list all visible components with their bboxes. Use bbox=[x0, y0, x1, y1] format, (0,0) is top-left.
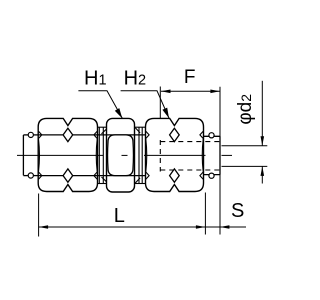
svg-text:F: F bbox=[184, 67, 196, 88]
svg-text:φd2: φd2 bbox=[235, 94, 256, 125]
svg-text:S: S bbox=[231, 200, 244, 222]
svg-text:L: L bbox=[114, 205, 125, 227]
